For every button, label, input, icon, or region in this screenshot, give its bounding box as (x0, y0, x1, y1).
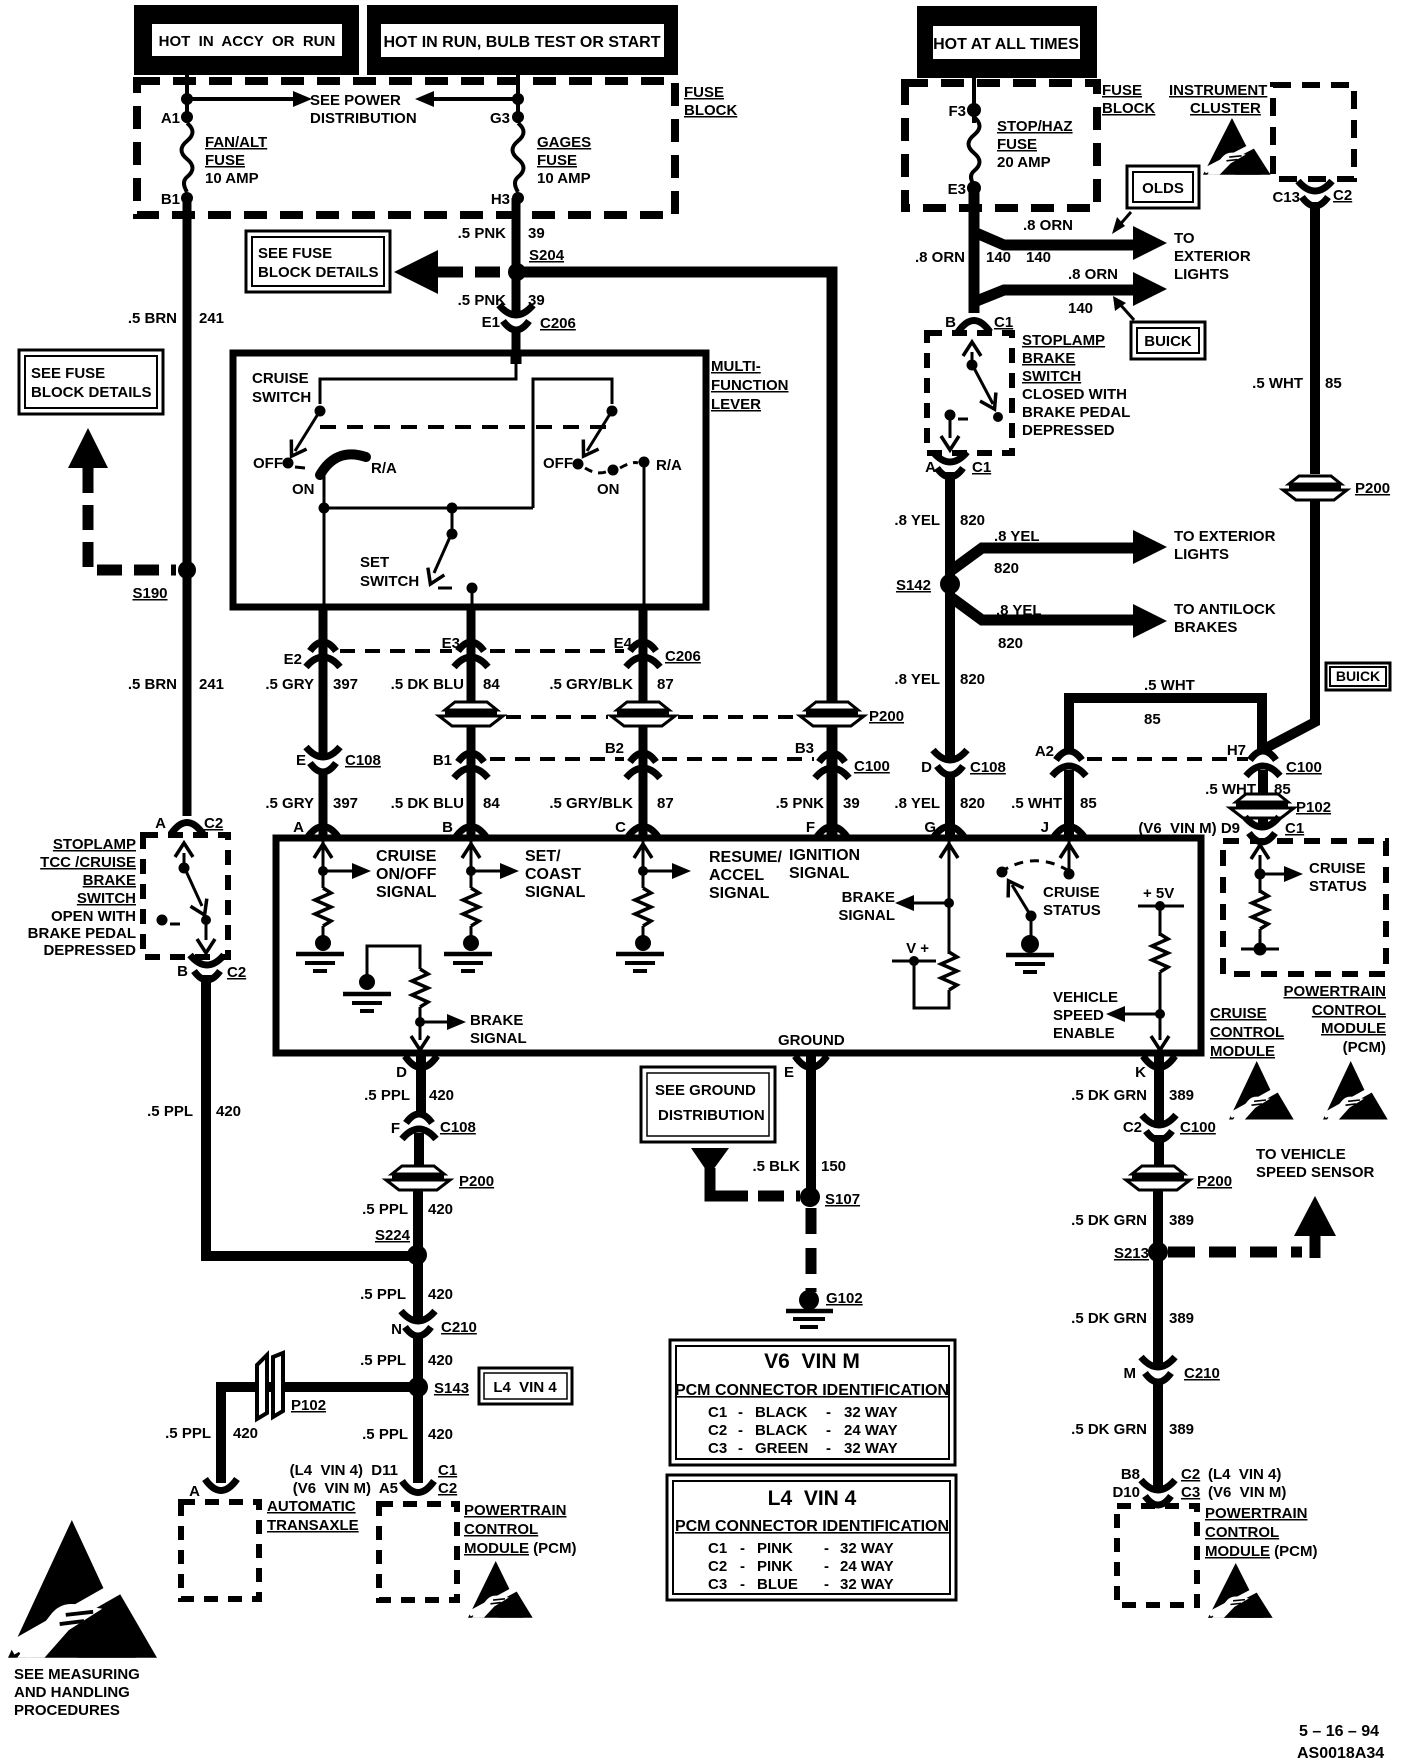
right switch ON contact (608, 465, 619, 476)
svg-text:.5 DK GRN: .5 DK GRN (1071, 1087, 1147, 1104)
svg-text:C1: C1 (1285, 820, 1304, 837)
svg-text:140: 140 (1068, 300, 1093, 317)
svg-text:TO VEHICLE: TO VEHICLE (1256, 1146, 1346, 1163)
svg-text:L4 VIN 4: L4 VIN 4 (493, 1379, 557, 1396)
svg-text:E: E (784, 1064, 794, 1081)
svg-text:STOPLAMP: STOPLAMP (1022, 332, 1105, 349)
svg-text:BUICK: BUICK (1336, 668, 1380, 684)
svg-text:DISTRIBUTION: DISTRIBUTION (658, 1107, 765, 1124)
svg-text:85: 85 (1080, 795, 1097, 812)
resistor pin G (941, 952, 957, 990)
see ground distribution box (641, 1067, 775, 1142)
svg-text:.5 DK GRN: .5 DK GRN (1071, 1212, 1147, 1229)
node A1 feed (181, 93, 193, 105)
node V+ (909, 956, 919, 966)
svg-text:SEE FUSE: SEE FUSE (258, 245, 332, 262)
svg-text:OLDS: OLDS (1142, 180, 1184, 197)
svg-text:F: F (391, 1120, 400, 1137)
svg-text:N: N (391, 1321, 402, 1338)
svg-text:P200: P200 (1197, 1173, 1232, 1190)
svg-text:C2: C2 (1181, 1466, 1200, 1483)
svg-text:D10: D10 (1112, 1484, 1140, 1501)
svg-text:C1: C1 (438, 1462, 457, 1479)
svg-text:.5 PPL: .5 PPL (364, 1087, 410, 1104)
connector D C108 (933, 750, 967, 775)
left cruise switch common node (315, 406, 326, 417)
svg-text:G102: G102 (826, 1290, 863, 1307)
connector F C108 (402, 1114, 436, 1139)
svg-text:420: 420 (428, 1201, 453, 1218)
entry wire into lever box (511, 353, 522, 364)
wire E4->C (.5 GRY/BLK 87) (639, 604, 648, 836)
svg-text:P200: P200 (869, 708, 904, 725)
svg-text:C100: C100 (854, 758, 890, 775)
svg-text:INSTRUMENT: INSTRUMENT (1169, 82, 1267, 99)
svg-text:COAST: COAST (525, 866, 581, 883)
svg-text:420: 420 (428, 1352, 453, 1369)
svg-text:B1: B1 (433, 752, 452, 769)
svg-text:.8 YEL: .8 YEL (894, 512, 940, 529)
svg-text:(V6 VIN M) D9: (V6 VIN M) D9 (1138, 820, 1240, 837)
header HOT IN ACCY OR RUN (134, 5, 359, 75)
svg-text:C: C (615, 819, 626, 836)
svg-text:PCM CONNECTOR IDENTIFICATION: PCM CONNECTOR IDENTIFICATION (675, 1382, 949, 1399)
svg-text:S190: S190 (132, 585, 167, 602)
svg-text:MODULE: MODULE (1210, 1043, 1275, 1060)
svg-text:.5 GRY/BLK: .5 GRY/BLK (549, 676, 633, 693)
ESD symbol cruise control module (1229, 1061, 1294, 1120)
svg-text:C2: C2 (438, 1480, 457, 1497)
svg-text:.5 BRN: .5 BRN (128, 310, 177, 327)
svg-text:TO ANTILOCK: TO ANTILOCK (1174, 601, 1276, 618)
svg-text:C2: C2 (1333, 187, 1352, 204)
fuse GAGES (513, 123, 524, 192)
svg-text:E1: E1 (482, 314, 500, 331)
ground pin C (616, 954, 664, 971)
splice S213 (1148, 1242, 1168, 1262)
svg-text:B: B (945, 314, 956, 331)
svg-text:ACCEL: ACCEL (709, 867, 764, 884)
set switch contact (467, 583, 478, 594)
svg-text:(L4 VIN 4): (L4 VIN 4) (1208, 1466, 1281, 1483)
wire .5 WHT 85 down from cluster (1310, 202, 1320, 474)
svg-text:.8 YEL: .8 YEL (994, 528, 1040, 545)
svg-text:SIGNAL: SIGNAL (789, 865, 850, 882)
ground symbol G102 (786, 1309, 833, 1314)
svg-text:SWITCH: SWITCH (77, 890, 136, 907)
brake signal branch with extra ground (367, 946, 420, 977)
svg-text:POWERTRAIN: POWERTRAIN (464, 1502, 567, 1519)
svg-text:BRAKE PEDAL: BRAKE PEDAL (1022, 404, 1130, 421)
splice S190 (178, 561, 196, 579)
svg-text:DEPRESSED: DEPRESSED (43, 942, 136, 959)
connector E2 C206 (306, 642, 340, 667)
svg-text:C3-GREEN-32 WAY: C3-GREEN-32 WAY (708, 1440, 898, 1457)
svg-text:.5 PPL: .5 PPL (360, 1286, 406, 1303)
connector P200 on E4 wire (611, 701, 675, 726)
A2-H7 bridge .5 WHT 85 (1069, 698, 1262, 752)
svg-text:DEPRESSED: DEPRESSED (1022, 422, 1115, 439)
svg-text:B2: B2 (605, 740, 624, 757)
H7 column down to P102/C1 (1258, 770, 1268, 800)
ground distribution arrow (691, 1148, 729, 1170)
svg-text:F: F (806, 819, 815, 836)
svg-text:STOPLAMP: STOPLAMP (53, 836, 136, 853)
svg-text:DISTRIBUTION: DISTRIBUTION (310, 110, 417, 127)
set switch (451, 508, 454, 534)
svg-text:C1-PINK-32 WAY: C1-PINK-32 WAY (708, 1540, 894, 1557)
svg-text:OFF: OFF (543, 455, 573, 472)
left stoplamp switch lower contact (201, 915, 211, 925)
svg-text:AS0018A34: AS0018A34 (1297, 1745, 1384, 1762)
svg-text:397: 397 (333, 795, 358, 812)
svg-text:39: 39 (843, 795, 860, 812)
svg-text:M: M (1124, 1365, 1137, 1382)
svg-text:R/A: R/A (656, 457, 682, 474)
svg-text:140: 140 (986, 249, 1011, 266)
connector E4 C206 (626, 642, 660, 667)
svg-text:CRUISE: CRUISE (252, 370, 309, 387)
connector M C210 (1141, 1357, 1175, 1382)
svg-text:FUSE: FUSE (205, 152, 245, 169)
svg-text:B: B (177, 963, 188, 980)
resistor pin C pull (635, 888, 651, 926)
splice S142 (940, 574, 960, 594)
svg-text:CONTROL: CONTROL (1205, 1524, 1279, 1541)
svg-text:L4 VIN 4: L4 VIN 4 (768, 1487, 857, 1510)
SEE FUSE BLOCK DETAILS box (left) (19, 350, 163, 414)
svg-text:S142: S142 (896, 577, 931, 594)
ground brake branch (343, 994, 391, 1011)
svg-text:C2: C2 (227, 964, 246, 981)
ground pin A (296, 954, 344, 971)
svg-text:A: A (293, 819, 304, 836)
svg-text:SPEED SENSOR: SPEED SENSOR (1256, 1164, 1375, 1181)
svg-text:389: 389 (1169, 1212, 1194, 1229)
svg-text:85: 85 (1325, 375, 1342, 392)
svg-text:GROUND: GROUND (778, 1032, 845, 1049)
svg-text:241: 241 (199, 310, 224, 327)
svg-text:C108: C108 (970, 759, 1006, 776)
E3 wire down + branches to exterior lights (969, 188, 980, 313)
connector D9 C1 (1245, 817, 1279, 842)
svg-text:.5 PPL: .5 PPL (362, 1426, 408, 1443)
svg-text:PROCEDURES: PROCEDURES (14, 1702, 120, 1719)
connector P102 on PPL branch (257, 1353, 283, 1419)
svg-text:.5 WHT: .5 WHT (1144, 677, 1195, 694)
svg-text:.5 PPL: .5 PPL (147, 1103, 193, 1120)
svg-text:EXTERIOR: EXTERIOR (1174, 248, 1251, 265)
svg-text:FUSE: FUSE (1102, 82, 1142, 99)
svg-text:85: 85 (1144, 711, 1161, 728)
svg-text:ON: ON (292, 481, 315, 498)
svg-text:87: 87 (657, 795, 674, 812)
svg-text:V +: V + (906, 940, 929, 957)
node H3 (512, 192, 524, 204)
connector B3 C100 (815, 753, 849, 778)
connector N C210 (401, 1311, 435, 1336)
svg-text:P102: P102 (1296, 799, 1331, 816)
svg-text:420: 420 (233, 1425, 258, 1442)
svg-text:BRAKE: BRAKE (470, 1012, 523, 1029)
bus line to set switch and right half (324, 507, 533, 510)
svg-text:A2: A2 (1035, 743, 1054, 760)
svg-text:420: 420 (428, 1286, 453, 1303)
wire E3->B (.5 DK BLU 84) (467, 604, 476, 836)
svg-text:.5 GRY: .5 GRY (265, 795, 314, 812)
left switch ON wiper (320, 454, 366, 475)
splice S204 (508, 263, 526, 281)
right switch OFF contact (573, 459, 584, 470)
connector B8/D10 C2/C3 (1141, 1480, 1175, 1505)
svg-text:10 AMP: 10 AMP (205, 170, 259, 187)
svg-text:.8 ORN: .8 ORN (915, 249, 965, 266)
svg-text:FAN/ALT: FAN/ALT (205, 134, 267, 151)
svg-text:FUNCTION: FUNCTION (711, 377, 789, 394)
svg-text:V6 VIN M: V6 VIN M (764, 1350, 860, 1373)
svg-text:IGNITION: IGNITION (789, 847, 860, 864)
fuse FAN/ALT (182, 123, 193, 192)
svg-text:C1: C1 (972, 459, 991, 476)
connector B C1 (958, 321, 990, 333)
wire .5 PNK 39 from H3 to S204 to E1 (512, 198, 521, 360)
svg-text:TCC /CRUISE: TCC /CRUISE (40, 854, 136, 871)
wire .5 BRN 241 from B1 down to stoplamp switch (183, 198, 192, 816)
svg-text:AUTOMATIC: AUTOMATIC (267, 1498, 356, 1515)
svg-text:CRUISE: CRUISE (1210, 1005, 1267, 1022)
left stoplamp switch open contact (157, 915, 168, 926)
svg-text:BRAKES: BRAKES (1174, 619, 1237, 636)
svg-text:STOP/HAZ: STOP/HAZ (997, 118, 1073, 135)
ESD symbol see measuring (8, 1520, 157, 1658)
svg-text:SIGNAL: SIGNAL (470, 1030, 527, 1047)
svg-text:BLOCK: BLOCK (1102, 100, 1155, 117)
svg-text:820: 820 (994, 560, 1019, 577)
set switch node (447, 529, 458, 540)
branch left through P102 to transaxle (221, 1387, 418, 1483)
S204 horizontal to right then down (.5 PNK 39 right trunk) (517, 272, 832, 836)
svg-text:SPEED: SPEED (1053, 1007, 1104, 1024)
svg-text:150: 150 (821, 1158, 846, 1175)
svg-text:.5 PPL: .5 PPL (362, 1201, 408, 1218)
svg-text:5 – 16 – 94: 5 – 16 – 94 (1299, 1723, 1379, 1740)
BUICK box (lower right) (1326, 663, 1390, 690)
right switch R/A contact (639, 457, 650, 468)
svg-text:R/A: R/A (371, 460, 397, 477)
branch arrow to exterior lights (ORN 1) (1133, 226, 1167, 260)
node G3 feed (512, 93, 524, 105)
svg-text:C3-BLUE-32 WAY: C3-BLUE-32 WAY (708, 1576, 894, 1593)
wire A1 drop from header (185, 75, 189, 123)
resistor cruise status (PCM) (1252, 891, 1268, 929)
svg-text:C2-PINK-24 WAY: C2-PINK-24 WAY (708, 1558, 894, 1575)
fuse block (left) dashed box (137, 81, 675, 215)
svg-text:84: 84 (483, 795, 500, 812)
pin D connector (405, 1056, 437, 1068)
svg-text:84: 84 (483, 676, 500, 693)
connector B1 C100 (454, 753, 488, 778)
connector A C1 (933, 452, 967, 477)
svg-text:H3: H3 (491, 191, 510, 208)
svg-text:389: 389 (1169, 1087, 1194, 1104)
connector C13 C2 (1298, 181, 1332, 206)
svg-text:HOT IN RUN, BULB TEST OR START: HOT IN RUN, BULB TEST OR START (383, 34, 660, 51)
svg-text:C100: C100 (1286, 759, 1322, 776)
splice S107 (800, 1187, 820, 1207)
branch arrow to exterior lights (YEL) (1133, 530, 1167, 564)
OLDS box (1127, 166, 1199, 208)
svg-text:SIGNAL: SIGNAL (709, 885, 770, 902)
svg-text:A: A (155, 815, 166, 832)
connector P200 on E3 wire (439, 701, 503, 726)
connector A C2 (171, 823, 203, 835)
svg-text:SIGNAL: SIGNAL (376, 884, 437, 901)
svg-text:CLUSTER: CLUSTER (1190, 100, 1261, 117)
svg-text:C210: C210 (1184, 1365, 1220, 1382)
resistor brake branch (412, 969, 428, 1007)
svg-text:BRAKE: BRAKE (83, 872, 136, 889)
svg-text:C3: C3 (1181, 1484, 1200, 1501)
svg-text:ON: ON (597, 481, 620, 498)
.5 PPL 420 from B down and over to S224 (206, 975, 412, 1256)
L4 VIN 4 tag box (479, 1368, 572, 1404)
svg-text:OPEN WITH: OPEN WITH (51, 908, 136, 925)
svg-text:GAGES: GAGES (537, 134, 591, 151)
down to PCM left (413, 1387, 423, 1483)
header HOT AT ALL TIMES (917, 6, 1097, 78)
svg-text:C2: C2 (1123, 1119, 1142, 1136)
svg-text:TO: TO (1174, 230, 1195, 247)
ESD symbol instrument cluster (1203, 118, 1271, 175)
svg-text:420: 420 (216, 1103, 241, 1120)
SEE FUSE BLOCK DETAILS box (top) + arrow (246, 231, 390, 292)
svg-text:.5 WHT: .5 WHT (1252, 375, 1303, 392)
connector H7 C100 (1246, 751, 1280, 776)
svg-text:BLOCK: BLOCK (684, 102, 737, 119)
svg-text:G3: G3 (490, 110, 510, 127)
svg-text:420: 420 (428, 1426, 453, 1443)
svg-text:LIGHTS: LIGHTS (1174, 546, 1229, 563)
svg-text:CLOSED WITH: CLOSED WITH (1022, 386, 1127, 403)
svg-text:SWITCH: SWITCH (1022, 368, 1081, 385)
splice S224 (407, 1245, 427, 1265)
svg-text:.5 GRY/BLK: .5 GRY/BLK (549, 795, 633, 812)
svg-text:397: 397 (333, 676, 358, 693)
svg-text:BRAKE PEDAL: BRAKE PEDAL (28, 925, 136, 942)
pin F3 node (967, 103, 981, 117)
connector E3 C206 (454, 642, 488, 667)
svg-text:MODULE (PCM): MODULE (PCM) (464, 1540, 577, 1557)
svg-text:CONTROL: CONTROL (1312, 1002, 1386, 1019)
svg-text:SEE POWER: SEE POWER (310, 92, 401, 109)
svg-text:C1: C1 (994, 314, 1013, 331)
svg-text:SIGNAL: SIGNAL (838, 907, 895, 924)
svg-text:389: 389 (1169, 1310, 1194, 1327)
svg-text:C206: C206 (665, 648, 701, 665)
svg-text:STATUS: STATUS (1043, 902, 1101, 919)
connector P102 on WHT wire (1230, 793, 1294, 818)
connector C2 C100 (1142, 1115, 1176, 1140)
svg-text:C13: C13 (1272, 189, 1300, 206)
wire E2->A (.5 GRY 397) (319, 604, 328, 836)
svg-text:RESUME/: RESUME/ (709, 849, 782, 866)
connector D11/A5 C1/C2 (402, 1481, 434, 1493)
svg-text:OFF: OFF (253, 455, 283, 472)
svg-text:C2: C2 (204, 815, 223, 832)
svg-text:87: 87 (657, 676, 674, 693)
svg-text:D: D (921, 759, 932, 776)
ground cruise status switch (1006, 955, 1054, 972)
svg-text:.5 DK BLU: .5 DK BLU (391, 795, 464, 812)
svg-text:.5 GRY: .5 GRY (265, 676, 314, 693)
svg-text:P102: P102 (291, 1397, 326, 1414)
svg-text:HOT AT ALL TIMES: HOT AT ALL TIMES (933, 36, 1079, 53)
svg-text:820: 820 (960, 795, 985, 812)
pin E3 node (967, 181, 981, 195)
svg-text:POWERTRAIN: POWERTRAIN (1284, 983, 1387, 1000)
pin E connector (795, 1056, 827, 1068)
svg-text:H7: H7 (1227, 742, 1246, 759)
svg-text:(V6 VIN M) A5: (V6 VIN M) A5 (293, 1480, 398, 1497)
svg-text:(PCM): (PCM) (1343, 1039, 1386, 1056)
connector P200 on PNK wire (800, 701, 864, 726)
svg-text:S213: S213 (1114, 1245, 1149, 1262)
svg-text:.5 DK BLU: .5 DK BLU (391, 676, 464, 693)
svg-text:820: 820 (998, 635, 1023, 652)
svg-text:P200: P200 (459, 1173, 494, 1190)
svg-text:.5 DK GRN: .5 DK GRN (1071, 1310, 1147, 1327)
svg-text:BLOCK DETAILS: BLOCK DETAILS (31, 384, 152, 401)
header HOT IN RUN, BULB TEST OR START (367, 5, 678, 75)
node set switch tap (447, 503, 458, 514)
resistor +5V divider (1152, 934, 1168, 972)
svg-text:140: 140 (1026, 249, 1051, 266)
svg-text:FUSE: FUSE (997, 136, 1037, 153)
svg-text:BLOCK DETAILS: BLOCK DETAILS (258, 264, 379, 281)
connector P200 on DK GRN wire (1126, 1165, 1190, 1190)
svg-text:S143: S143 (434, 1380, 469, 1397)
svg-text:MULTI-: MULTI- (711, 358, 761, 375)
svg-text:A: A (189, 1483, 200, 1500)
svg-text:C100: C100 (1180, 1119, 1216, 1136)
svg-text:820: 820 (960, 671, 985, 688)
svg-text:39: 39 (528, 225, 545, 242)
svg-text:+ 5V: + 5V (1143, 885, 1174, 902)
svg-text:.8 YEL: .8 YEL (996, 602, 1042, 619)
connector B C2 (190, 955, 224, 980)
connector A transaxle (205, 1479, 237, 1491)
svg-text:STATUS: STATUS (1309, 878, 1367, 895)
ESD symbol PCM left (468, 1561, 533, 1618)
svg-text:C2-BLACK-24 WAY: C2-BLACK-24 WAY (708, 1422, 898, 1439)
svg-text:MODULE: MODULE (1321, 1020, 1386, 1037)
arrow see power distribution (left) (434, 97, 518, 101)
svg-text:SEE GROUND: SEE GROUND (655, 1082, 756, 1099)
svg-text:820: 820 (960, 512, 985, 529)
svg-text:(L4 VIN 4) D11: (L4 VIN 4) D11 (290, 1462, 398, 1479)
svg-text:F3: F3 (948, 103, 966, 120)
svg-text:.5 BLK: .5 BLK (752, 1158, 800, 1175)
svg-text:E: E (296, 752, 306, 769)
svg-text:.8 YEL: .8 YEL (894, 795, 940, 812)
svg-text:A1: A1 (161, 110, 180, 127)
svg-text:C1-BLACK-32 WAY: C1-BLACK-32 WAY (708, 1404, 898, 1421)
connector B2 C100 (626, 753, 660, 778)
left switch OFF contact (283, 458, 294, 469)
svg-text:MODULE (PCM): MODULE (PCM) (1205, 1543, 1318, 1560)
right cruise switch common node (607, 406, 618, 417)
svg-text:.8 ORN: .8 ORN (1023, 217, 1073, 234)
